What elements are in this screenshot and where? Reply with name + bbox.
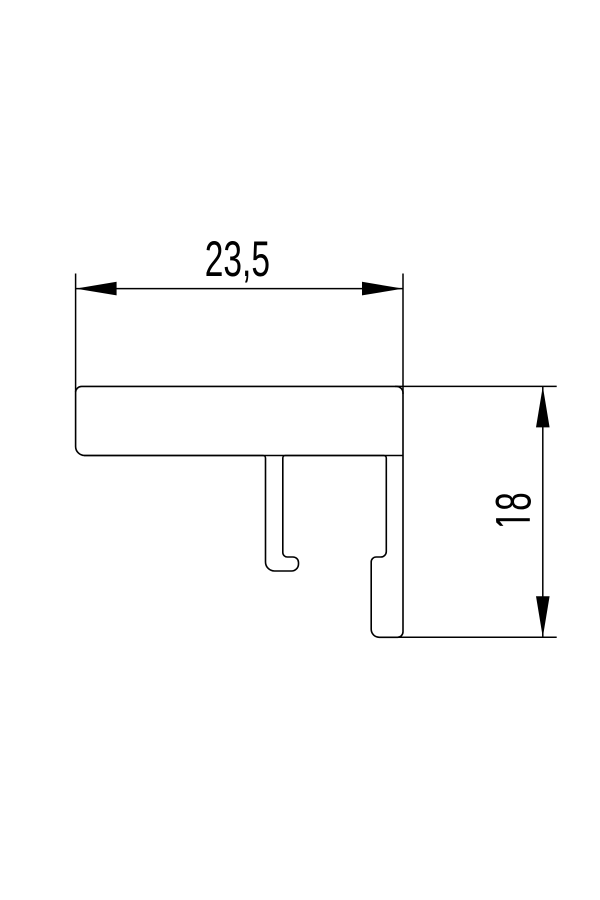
extension line right of dimension 23,5 xyxy=(402,274,404,395)
dimension line 23,5 xyxy=(76,288,403,290)
arrowhead bottom of dimension 18 xyxy=(536,596,550,637)
svg-text:23,5: 23,5 xyxy=(205,231,270,287)
arrowhead right of dimension 23,5 xyxy=(362,282,403,296)
extension line bottom of dimension 18 xyxy=(397,636,557,638)
arrowhead left of dimension 23,5 xyxy=(76,282,117,296)
bar bottom inner edge line xyxy=(84,455,403,457)
extension line top of dimension 18 xyxy=(395,385,557,387)
arrowhead top of dimension 18 xyxy=(536,386,550,427)
svg-text:8: 8 xyxy=(486,492,542,511)
extension line left of dimension 23,5 xyxy=(75,274,77,393)
dimension line 18 xyxy=(542,386,544,637)
dimension text 18: digit 1 (drawn, no foot serif) xyxy=(496,518,530,521)
profile outline xyxy=(76,386,403,637)
